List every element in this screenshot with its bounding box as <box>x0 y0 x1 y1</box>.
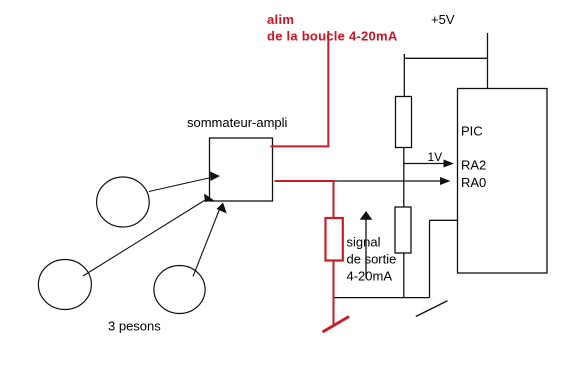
wire R1 bottom to R2 top <box>403 148 405 208</box>
wire R2 bottom down <box>403 253 405 298</box>
svg-text:de la boucle 4-20mA: de la boucle 4-20mA <box>267 29 398 44</box>
red ground slash <box>323 317 350 333</box>
wire +5V horizontal to divider <box>404 57 487 59</box>
PIC microcontroller box <box>458 89 548 274</box>
red wire box output horizontal <box>275 180 335 182</box>
resistor R1 (top divider) <box>396 97 412 148</box>
svg-text:de sortie: de sortie <box>347 252 397 267</box>
wire to RA0 (black part) <box>334 177 451 185</box>
ground bus line <box>334 297 430 299</box>
svg-text:PIC: PIC <box>461 124 483 139</box>
summing amplifier box U1 <box>210 138 273 201</box>
wire ground up to PIC <box>429 220 431 297</box>
red wire alim horizontal into box <box>271 145 330 147</box>
signal sense up-arrow <box>360 211 373 279</box>
svg-text:+5V: +5V <box>431 12 455 27</box>
svg-text:signal: signal <box>347 235 381 250</box>
svg-text:alim: alim <box>267 12 294 27</box>
1V arrow to RA2 <box>404 160 454 168</box>
svg-text:RA0: RA0 <box>461 175 486 190</box>
load cell circle P2 <box>38 260 91 310</box>
red wire R3 bottom down <box>333 261 335 325</box>
arrow from P3 to summing box <box>193 203 227 277</box>
arrow from P1 to summing box <box>149 172 220 192</box>
arrow from P2 to summing box <box>83 194 214 277</box>
svg-text:RA2: RA2 <box>461 158 486 173</box>
load cell circle P3 <box>154 266 205 314</box>
load resistor R3 (red) <box>326 218 343 261</box>
resistor R2 (bottom divider) <box>395 207 411 253</box>
load cell circle P1 <box>97 177 150 227</box>
wire corner down to R1 top <box>403 58 405 96</box>
wire +5V vertical drop <box>487 33 489 89</box>
svg-text:4-20mA: 4-20mA <box>347 269 393 284</box>
svg-text:1V: 1V <box>428 150 443 164</box>
svg-text:3 pesons: 3 pesons <box>108 319 161 334</box>
wire into PIC Vss <box>430 219 458 221</box>
label signal de sortie 4-20mA <box>347 235 397 284</box>
svg-text:sommateur-ampli: sommateur-ampli <box>187 115 288 130</box>
red wire down to load resistor <box>333 181 335 218</box>
tick at +5V corner <box>403 54 405 58</box>
ground slash symbol <box>416 301 448 317</box>
red wire alim vertical <box>327 31 329 146</box>
